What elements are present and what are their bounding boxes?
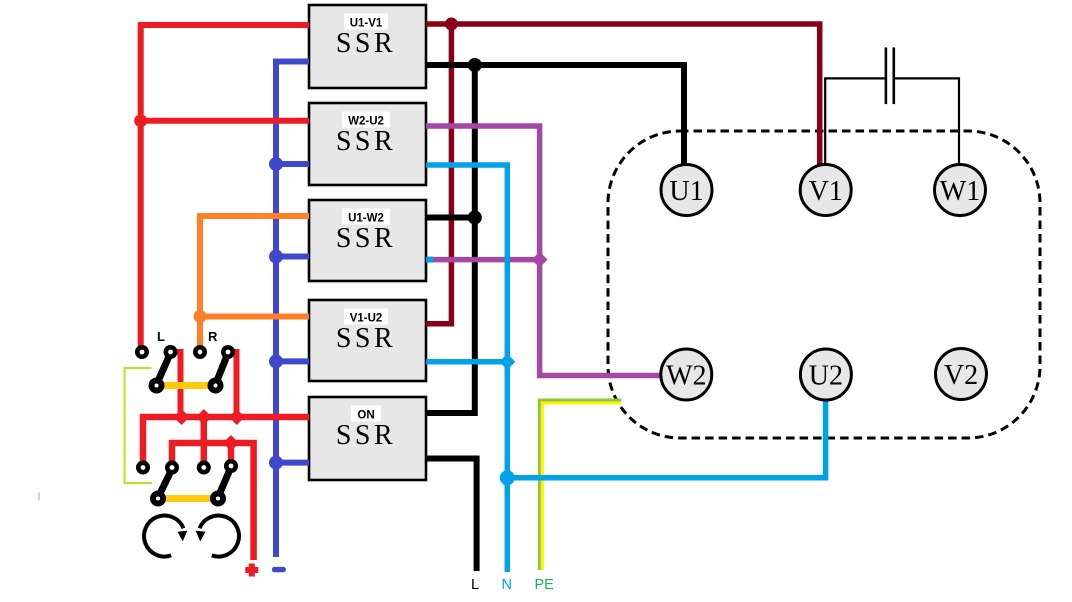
blue junction dots xyxy=(269,157,283,470)
rotation arrow CCW (right) xyxy=(200,516,239,557)
switch L/R yellow gang bar xyxy=(157,382,216,389)
minus terminal symbol xyxy=(272,567,286,572)
dark red wire: U1-V1 out / V1-U2 out to V1 xyxy=(426,24,820,324)
black L wire from ON out2 xyxy=(426,459,477,572)
svg-text:U1: U1 xyxy=(669,176,703,207)
svg-text:N: N xyxy=(502,577,512,593)
purple wire: W2-U2 out / U1-W2 out2 to W2 xyxy=(426,126,663,376)
SSR U1-W2 box xyxy=(309,200,426,281)
purple junction diamond xyxy=(532,252,548,268)
svg-text:L: L xyxy=(471,577,479,593)
red supply wire xyxy=(138,25,309,352)
dark red junction dot xyxy=(445,18,458,31)
cyan stub on U1-W2 out2 xyxy=(426,257,433,263)
terminal U1 xyxy=(661,165,712,216)
black junction dots xyxy=(468,58,482,225)
switch L/R contact terminals xyxy=(135,345,235,359)
svg-text:SSR: SSR xyxy=(336,223,396,254)
orange junction dot xyxy=(194,310,207,323)
cyan wire: W2-U2 out2 / V1-U2 out2, N bus to U2 xyxy=(426,165,826,572)
mechanical link bracket (switch gang, lime) xyxy=(125,368,152,483)
svg-text:W2: W2 xyxy=(666,361,706,392)
red junction diamonds xyxy=(174,409,245,451)
stray gray mark xyxy=(38,493,40,501)
SSR ON box xyxy=(309,397,426,480)
svg-text:SSR: SSR xyxy=(336,323,396,354)
svg-text:L: L xyxy=(157,329,165,344)
plus terminal symbol xyxy=(245,564,258,577)
svg-text:SSR: SSR xyxy=(336,126,396,157)
red distribution network xyxy=(143,417,309,560)
PE wire (green/yellow) xyxy=(539,400,621,570)
red junction dot xyxy=(134,114,147,127)
svg-text:R: R xyxy=(208,329,218,344)
switch L lever xyxy=(157,353,171,385)
black wire: U1-V1 out2 to U1, bus to U1-W2 and ON outputs xyxy=(426,65,684,413)
svg-text:SSR: SSR xyxy=(336,420,396,451)
ON switch lever 1 xyxy=(158,469,172,498)
terminal V2 xyxy=(936,349,987,400)
capacitor wiring V1 to W1 xyxy=(825,78,959,166)
ON switch contact terminals xyxy=(136,459,238,475)
switch L/R pivots xyxy=(149,378,224,394)
cyan junction dots xyxy=(499,354,515,486)
rotation arrow CW (left) xyxy=(144,516,183,557)
svg-text:PE: PE xyxy=(535,577,555,593)
terminal W2 xyxy=(661,349,712,400)
switch R lever xyxy=(216,353,229,385)
terminal V1 xyxy=(800,165,851,216)
svg-text:W1: W1 xyxy=(940,176,980,207)
svg-text:V1: V1 xyxy=(809,176,843,207)
red contact stubs from switch L/R xyxy=(172,352,237,417)
blue DC-minus bus xyxy=(276,62,309,558)
terminal U2 xyxy=(800,349,851,400)
terminal W1 xyxy=(935,165,986,216)
ON switch lever 2 xyxy=(218,467,231,498)
ON switch yellow gang bar xyxy=(158,495,218,502)
svg-text:SSR: SSR xyxy=(336,28,396,59)
SSR V1-U2 box xyxy=(309,300,426,381)
svg-text:V2: V2 xyxy=(944,360,978,391)
ON switch pivots xyxy=(150,491,226,507)
SSR W2-U2 box xyxy=(309,103,426,185)
motor terminal box (dashed) xyxy=(608,131,1040,438)
SSR U1-V1 box xyxy=(309,5,426,88)
capacitor C plates xyxy=(886,47,894,104)
orange wire to U1-W2 / V1-U2 inputs and R contact xyxy=(197,216,309,352)
svg-text:U2: U2 xyxy=(809,361,843,392)
